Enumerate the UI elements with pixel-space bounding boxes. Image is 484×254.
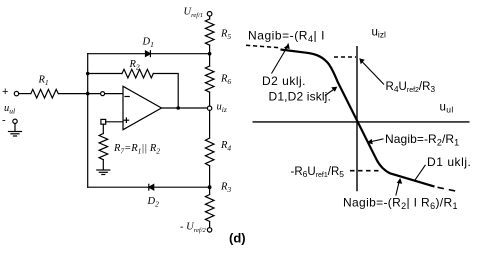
output wire [162,107,208,109]
resistor R2 [122,69,153,78]
wire + input down to R7 [102,124,104,133]
svg-text:D1: D1 [142,37,154,50]
svg-text:D2: D2 [147,196,160,209]
junction D2 R4 R3 [208,185,212,189]
input terminal - [13,119,17,123]
ground at input - terminal [14,124,16,132]
ground under R7 [97,169,110,171]
terminal -U_ref/2 [207,228,211,232]
dashed level R4Uref2/R3 [334,56,356,58]
svg-text:uizl: uizl [372,27,387,40]
y-axis [356,46,358,191]
feedback vertical wire [87,54,89,188]
svg-text:R7=R1|| R2: R7=R1|| R2 [113,143,160,156]
wire to R2 [88,73,122,75]
svg-text:Nagib=-(R2| I R6)/R1: Nagib=-(R2| I R6)/R1 [343,196,458,212]
svg-text:R4: R4 [220,140,231,153]
junction output feedback [176,106,180,110]
leader Nagib bottom to curve [396,181,400,196]
diode D1 [146,51,151,56]
op-amp U1 [123,86,162,129]
diode D2 [149,185,154,190]
svg-text:D1 uklj.: D1 uklj. [427,155,471,169]
svg-text:R3: R3 [220,182,231,195]
svg-text:-R6Uref1/R5: -R6Uref1/R5 [291,166,345,179]
junction D1 R5 R6 [208,52,212,56]
junction R2 tap [86,72,90,76]
svg-text:uul: uul [440,102,454,115]
leader D1 uklj to curve [415,165,426,181]
svg-text:D2 uklj.: D2 uklj. [262,74,306,88]
svg-text:-: - [2,115,6,127]
terminal U_ref/1 [207,12,212,17]
wire R7 to ground [102,160,104,170]
leader D2 uklj to curve [272,47,288,74]
resistor R5 [205,19,214,45]
wire D2 horizontal [88,186,210,188]
wire R6 to u_iz [209,92,211,106]
leader from Nagib text to curve [284,44,289,52]
svg-text:Nagib=-R2/R1: Nagib=-R2/R1 [385,132,459,148]
svg-text:Nagib=-(R4| I: Nagib=-(R4| I [248,29,325,45]
resistor R7 [99,134,108,160]
junction at inverting node [86,92,90,96]
svg-text:R1: R1 [38,75,49,88]
dashed level -R6Uref1/R5 [350,170,380,172]
resistor R6 [205,66,214,92]
wire R3 to terminal [209,222,211,228]
svg-text:Uref/1: Uref/1 [184,7,204,20]
x-axis [253,121,470,123]
resistor R4 [205,138,214,166]
wire D1 horizontal [88,53,210,55]
transfer curve dashed upper-left [246,45,280,47]
svg-text:D1,D2 isklj.: D1,D2 isklj. [269,90,331,104]
svg-text:- Uref/2: - Uref/2 [180,222,207,235]
svg-text:R6: R6 [220,74,231,87]
transfer curve dashed lower-right [438,187,458,191]
resistor R1 [31,89,59,98]
wire R2 to output [153,74,178,109]
svg-text:(d): (d) [229,231,246,246]
transfer curve [281,50,435,187]
wire input to R1 [19,93,31,95]
svg-text:uiz: uiz [217,102,227,115]
resistor R3 [205,195,214,222]
input terminal + [14,91,18,95]
leader Nagib=-R2/R1 to curve [370,139,384,142]
wire R4 to junction [209,166,211,195]
wire u_iz to R4 [209,110,211,138]
svg-text:R2: R2 [129,59,140,72]
wire R5 to junction [209,45,211,66]
GRAPH [253,46,470,191]
leader R4Uref2/R3 to dashed level [361,61,384,85]
square terminal noninverting input [101,119,106,124]
node u_iz [207,106,211,110]
wire square to op-amp + [106,121,123,123]
wire Uref1 to R5 [209,16,211,19]
svg-text:R5: R5 [220,29,231,42]
node circle on inverting input [101,92,105,96]
leader D1,D2 isklj to curve [325,89,335,96]
svg-text:+: + [2,86,8,98]
svg-text:R4Uref2/R3: R4Uref2/R3 [386,81,436,94]
wire R1 to op-amp [58,93,123,95]
